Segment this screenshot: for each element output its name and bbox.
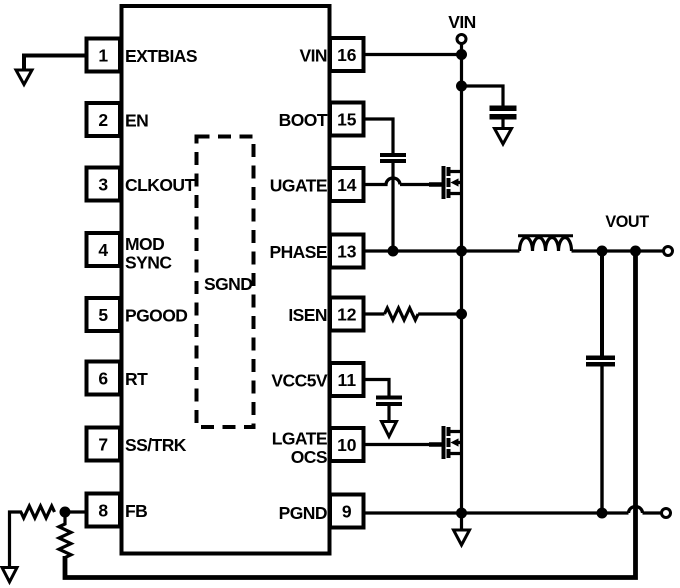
svg-text:16: 16: [337, 45, 357, 65]
pin 16 box: [330, 38, 364, 71]
PGND terminal circle: [662, 509, 671, 518]
node output cap top: [597, 246, 608, 257]
svg-text:10: 10: [337, 435, 357, 455]
wire C3 to ground: [387, 406, 390, 422]
pin 4 box: [87, 233, 121, 266]
IC body U1: [122, 6, 330, 554]
wire C2 to phase node: [391, 163, 394, 251]
svg-text:2: 2: [98, 110, 108, 130]
wire pin15 to boot capacitor: [364, 119, 394, 153]
pin 13 box: [330, 235, 364, 268]
wire Q1 gate lead: [429, 182, 442, 187]
pin 2 box: [87, 103, 121, 136]
wire feedback rail (VOUT to FB divider): [65, 251, 636, 578]
svg-text:MOD: MOD: [125, 234, 164, 254]
svg-text:12: 12: [337, 304, 357, 324]
resistor R3 (ISEN): [385, 308, 419, 320]
wire pin1 to ground: [24, 56, 87, 70]
transistor Q2 (lower MOSFET): [444, 426, 462, 459]
svg-text:14: 14: [337, 175, 357, 195]
svg-text:7: 7: [98, 434, 108, 454]
svg-text:SYNC: SYNC: [125, 253, 172, 273]
pin 12 box: [330, 298, 364, 331]
pin 7 box: [87, 428, 121, 461]
node phase/mosfets: [456, 246, 467, 257]
pin 8 box: [87, 494, 121, 527]
wire R3 to phase rail: [418, 312, 461, 315]
inductor L1: [518, 236, 573, 251]
pin 1 box: [87, 39, 121, 72]
wire L1 to VOUT: [572, 249, 664, 252]
svg-text:EN: EN: [125, 111, 148, 131]
wire pgnd hop over feedback rail: [629, 507, 662, 513]
wire C1 to ground: [501, 120, 504, 129]
node VIN/pin16: [456, 49, 467, 60]
capacitor C4 (output): [586, 358, 615, 365]
svg-text:FB: FB: [125, 501, 147, 521]
node pgnd/mosfet: [456, 508, 467, 519]
wire pin8 FB to divider node: [65, 510, 87, 513]
pin 3 box: [87, 168, 121, 201]
pin 14 box: [330, 168, 364, 201]
pin 9 box: [330, 495, 364, 528]
node boot/phase: [388, 246, 399, 257]
capacitor C2 (boot): [380, 155, 406, 161]
svg-text:VIN: VIN: [448, 12, 476, 32]
VOUT terminal circle: [664, 247, 673, 256]
svg-text:5: 5: [98, 305, 108, 325]
wire pin13 phase: [364, 249, 520, 252]
svg-text:3: 3: [98, 174, 108, 194]
svg-text:4: 4: [98, 240, 108, 260]
VIN terminal circle: [457, 35, 466, 44]
svg-text:9: 9: [342, 501, 352, 521]
pin 10 box: [330, 428, 364, 461]
node FB divider junction: [60, 507, 71, 518]
node feedback rail top: [630, 246, 641, 257]
svg-text:VIN: VIN: [299, 46, 327, 66]
ground (C1): [495, 129, 512, 145]
svg-text:BOOT: BOOT: [279, 110, 328, 130]
wire output cap lower: [600, 367, 603, 514]
wire output cap upper: [600, 251, 604, 356]
svg-text:13: 13: [337, 241, 357, 261]
wire pin11 to C3: [364, 380, 390, 396]
svg-text:SS/TRK: SS/TRK: [125, 435, 187, 455]
svg-text:VCC5V: VCC5V: [271, 371, 327, 391]
pin 5 box: [87, 298, 121, 331]
svg-text:LGATE: LGATE: [272, 429, 327, 449]
pin 6 box: [87, 362, 121, 395]
wire R1 to ground: [10, 512, 23, 567]
svg-text:EXTBIAS: EXTBIAS: [125, 46, 197, 66]
wire pin12 to R3: [364, 312, 385, 315]
node pgnd/output cap: [597, 508, 608, 519]
ground (R1): [2, 568, 17, 583]
wire to input capacitor: [462, 86, 504, 106]
wire pin14 to Q1 gate with hop: [364, 178, 431, 184]
svg-text:11: 11: [338, 370, 357, 390]
wire pin9 pgnd: [364, 511, 629, 514]
wire VIN rail vertical: [460, 44, 463, 531]
resistor R1 (FB to ground): [21, 506, 55, 518]
svg-text:PGND: PGND: [279, 503, 327, 523]
svg-text:PHASE: PHASE: [269, 242, 327, 262]
svg-text:PGOOD: PGOOD: [125, 306, 187, 326]
capacitor C1 (input): [490, 108, 517, 117]
ground (C3): [382, 422, 397, 437]
svg-text:8: 8: [98, 500, 108, 520]
transistor Q1 (upper MOSFET): [444, 166, 462, 199]
wire pin10 to Q2 gate: [364, 443, 431, 446]
svg-text:RT: RT: [125, 369, 148, 389]
svg-text:SGND: SGND: [204, 274, 252, 294]
svg-text:UGATE: UGATE: [270, 176, 327, 196]
svg-text:CLKOUT: CLKOUT: [125, 175, 195, 195]
capacitor C3 (VCC5V): [376, 398, 402, 405]
svg-text:ISEN: ISEN: [288, 305, 327, 325]
pin 11 box: [330, 363, 364, 396]
node ISEN/rail: [456, 309, 467, 320]
pin 15 box: [330, 103, 364, 136]
svg-text:15: 15: [337, 109, 357, 129]
svg-text:OCS: OCS: [291, 447, 327, 467]
wire pin16 to VIN rail: [364, 53, 462, 56]
svg-text:1: 1: [98, 45, 108, 65]
node input cap branch: [456, 81, 467, 92]
svg-text:6: 6: [98, 368, 108, 388]
svg-text:VOUT: VOUT: [605, 213, 649, 231]
wire Q2 gate lead: [429, 442, 442, 447]
resistor R2 (FB lower): [59, 512, 71, 558]
SGND dashed region: [197, 137, 254, 428]
ground (EXTBIAS): [16, 70, 32, 85]
ground (power stage): [454, 530, 470, 545]
